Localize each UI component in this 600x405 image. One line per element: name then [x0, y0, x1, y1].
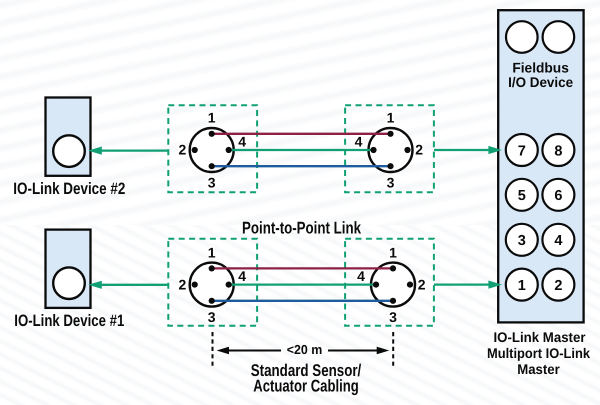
connector bottom-left pin 4: [226, 282, 232, 288]
arrowhead to master port 1: [488, 281, 502, 289]
svg-text:Master: Master: [517, 361, 560, 377]
fieldbus connector circle left: [506, 21, 538, 53]
IO-Link device #2 port circle: [53, 135, 85, 167]
svg-text:Point-to-Point Link: Point-to-Point Link: [242, 219, 361, 238]
dashed cable boundary box bottom-left: [168, 239, 257, 326]
svg-text:4: 4: [355, 133, 363, 149]
wire to master port 7 (green link line): [434, 149, 491, 151]
wire to master port 1 (green link line): [434, 283, 491, 285]
svg-text:Actuator Cabling: Actuator Cabling: [253, 376, 359, 395]
IO-Link master port 7: [506, 134, 538, 166]
IO-Link device #2 box: [46, 98, 91, 176]
dashed extension line right (measurement): [392, 332, 394, 366]
wire to IO-Link device #1 (green link line): [99, 284, 168, 286]
arrowhead to master port 7: [488, 146, 502, 154]
svg-text:3: 3: [389, 309, 397, 325]
wire pin1-to-pin1 (red/maroon) top link: [212, 133, 391, 135]
svg-text:1: 1: [518, 278, 526, 294]
svg-text:2: 2: [415, 142, 423, 158]
wire to IO-Link device #2 (green link line): [99, 149, 168, 151]
connector top-right pin 3: [387, 163, 393, 169]
wire pin3-to-pin3 (blue) top link: [212, 165, 391, 167]
svg-text:2: 2: [179, 276, 187, 292]
fieldbus connector circle right: [543, 21, 575, 53]
IO-Link master port 3: [506, 224, 538, 256]
IO-Link master / fieldbus device box: [498, 10, 583, 322]
connector top-right body: [369, 128, 413, 172]
svg-text:5: 5: [518, 188, 526, 204]
dashed extension line left (measurement): [212, 332, 214, 366]
wire pin3-to-pin3 (blue) bottom link: [212, 300, 393, 302]
arrowhead to IO-Link device #1: [88, 281, 102, 289]
svg-text:Fieldbus: Fieldbus: [512, 60, 569, 76]
dimension arrow <20 m: [228, 350, 282, 352]
connector top-left pin 3: [209, 163, 215, 169]
svg-text:1: 1: [208, 244, 216, 260]
connector bottom-right pin 4: [373, 282, 379, 288]
svg-text:I/O Device: I/O Device: [508, 74, 573, 90]
connector top-left pin 4: [226, 147, 232, 153]
connector bottom-left pin 2: [192, 282, 198, 288]
connector top-left pin 1: [209, 131, 215, 137]
IO-Link master port 6: [542, 179, 574, 211]
svg-text:1: 1: [208, 110, 216, 126]
connector bottom-right body: [371, 263, 415, 307]
svg-text:3: 3: [387, 175, 395, 191]
connector bottom-left pin 1: [209, 265, 215, 271]
IO-Link device #1 box: [46, 230, 91, 308]
svg-text:4: 4: [357, 268, 365, 284]
svg-text:2: 2: [418, 276, 426, 292]
svg-text:3: 3: [208, 309, 216, 325]
svg-text:1: 1: [389, 244, 397, 260]
wire pin4-to-pin4 (green) top link: [229, 149, 374, 151]
IO-Link master port 5: [506, 179, 538, 211]
svg-text:<20 m: <20 m: [287, 342, 323, 357]
svg-text:2: 2: [179, 142, 187, 158]
IO-Link master port 2: [542, 269, 574, 301]
connector top-left body: [190, 128, 234, 172]
svg-text:4: 4: [554, 233, 562, 249]
wire pin1-to-pin1 (red/maroon) bottom link: [212, 267, 393, 269]
svg-text:IO-Link Master: IO-Link Master: [494, 329, 587, 345]
svg-text:1: 1: [387, 110, 395, 126]
wire pin4-to-pin4 (green) bottom link: [229, 283, 376, 285]
connector top-right pin 1: [387, 131, 393, 137]
connector bottom-right pin 1: [390, 265, 396, 271]
svg-text:4: 4: [238, 133, 246, 149]
connector bottom-right pin 2: [407, 282, 413, 288]
connector top-right pin 2: [404, 147, 410, 153]
connector bottom-right pin 3: [390, 298, 396, 304]
IO-Link master port 8: [542, 134, 574, 166]
svg-text:2: 2: [554, 278, 562, 294]
IO-Link device #1 port circle: [53, 267, 85, 299]
IO-Link master port 4: [542, 224, 574, 256]
svg-text:IO-Link Device #2: IO-Link Device #2: [13, 180, 125, 198]
connector top-left pin 2: [192, 147, 198, 153]
svg-text:7: 7: [518, 143, 526, 159]
dashed cable boundary box top-left: [168, 105, 257, 192]
svg-text:IO-Link Device #1: IO-Link Device #1: [14, 312, 124, 330]
svg-text:6: 6: [554, 188, 562, 204]
svg-text:8: 8: [554, 143, 562, 159]
svg-text:3: 3: [208, 175, 216, 191]
IO-Link master port 1: [506, 269, 538, 301]
dashed cable boundary box top-right: [345, 105, 434, 192]
dashed cable boundary box bottom-right: [345, 239, 434, 326]
svg-text:3: 3: [518, 233, 526, 249]
arrowhead to IO-Link device #2: [88, 147, 102, 155]
connector top-right pin 4: [370, 147, 376, 153]
connector bottom-left pin 3: [209, 298, 215, 304]
connector bottom-left body: [190, 263, 234, 307]
svg-text:4: 4: [238, 268, 246, 284]
svg-text:Multiport IO-Link: Multiport IO-Link: [487, 345, 590, 361]
